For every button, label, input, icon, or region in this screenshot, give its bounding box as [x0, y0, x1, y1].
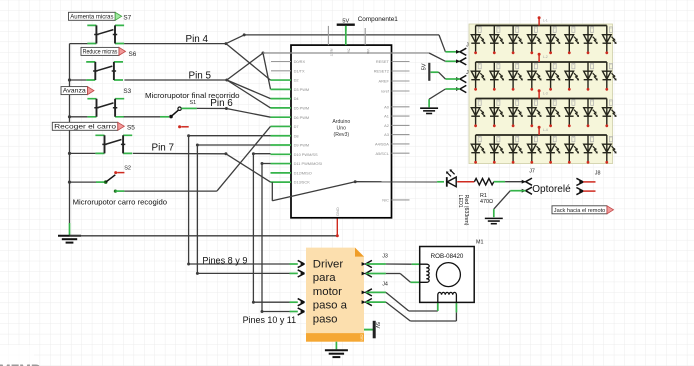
connector J6 pin1 [456, 48, 466, 55]
wire: ground to J5 pin2 [429, 89, 445, 99]
wire: LED row 3 anode bus [476, 98, 607, 100]
svg-text:A1: A1 [384, 114, 389, 119]
wire: ground to J7 pin2 [494, 191, 511, 209]
resistor R1 470 ohm [474, 178, 493, 185]
LED row 3 col 7 [584, 99, 598, 128]
svg-text:RESET2: RESET2 [374, 69, 389, 74]
node: LED row 1 supply stub L-1 [538, 16, 548, 25]
LED row 1 col 5 [546, 26, 560, 55]
ground (below driver note) [325, 342, 348, 357]
node: Pin7 bend [224, 152, 227, 155]
wire: LED row 2 anode bus [476, 61, 607, 63]
node: Pin5 bend [225, 79, 228, 82]
svg-text:N/C: N/C [382, 198, 389, 203]
svg-text:paso a: paso a [313, 300, 348, 312]
svg-text:para: para [313, 272, 336, 284]
wire: Pin6 bend to D6 [226, 109, 270, 118]
connector J4 pin1 [362, 289, 372, 296]
LED row 4 col 2 [490, 135, 504, 164]
driver note bottom band [306, 333, 364, 342]
inductor: motor coil B (bottom, horizontal) [438, 292, 457, 302]
connector J3 pin1 [362, 260, 372, 267]
LED row 2 col 8 [603, 62, 617, 91]
LED row 4 col 8 [603, 135, 617, 164]
wire: D13 net to LED1 (crosses Arduino) [272, 180, 444, 201]
svg-text:D12/MISO: D12/MISO [294, 170, 312, 175]
pushbutton S6 [86, 62, 123, 80]
op-amp U1: Arduino Uno (Rev3) body [291, 45, 392, 218]
ground (below R1/J7) [485, 218, 503, 223]
LED row 4 col 7 [584, 135, 598, 164]
svg-text:D8: D8 [294, 133, 299, 138]
LED row 1 col 3 [509, 26, 523, 55]
LED row 4 col 5 [546, 135, 560, 164]
label: Avanza [61, 87, 94, 95]
wire: Pin 6 net from S1 [181, 107, 197, 109]
text: Driver para motor paso a paso [313, 258, 348, 325]
svg-text:D10 PWM/SS: D10 PWM/SS [294, 152, 318, 157]
wire: left ground bus vertical [69, 44, 71, 223]
svg-text:L-1: L-1 [543, 18, 548, 22]
connector J5 pin1 [456, 75, 466, 82]
LED LED1 Red (633nm) [446, 169, 456, 186]
svg-text:J3: J3 [382, 253, 388, 259]
wire: gray net C over Arduino to J6 pin2 [263, 52, 429, 54]
wire: Pin 4 net horizontal [70, 43, 88, 45]
wire: Pin4 bend to Arduino D2 [226, 44, 271, 81]
svg-text:J8: J8 [595, 170, 601, 176]
svg-text:U$2: U$2 [360, 334, 364, 340]
wire: J4 pin1 to motor coil B left [366, 291, 386, 293]
connector J4 pin2 [362, 299, 372, 306]
svg-text:D11 PWM/MOSI: D11 PWM/MOSI [294, 161, 322, 166]
svg-text:5V: 5V [342, 18, 349, 24]
svg-text:D9 PWM: D9 PWM [294, 143, 310, 148]
LED row 2 col 3 [509, 62, 523, 91]
svg-text:LED1: LED1 [457, 195, 463, 208]
driver note pin 1 [298, 260, 305, 267]
LED matrix panel background [469, 24, 613, 164]
svg-text:S1: S1 [190, 100, 197, 106]
svg-text:A3: A3 [384, 132, 389, 137]
svg-text:D5 PWM: D5 PWM [294, 106, 310, 111]
svg-text:470Ω: 470Ω [480, 199, 493, 205]
power 5V (above Arduino) [337, 18, 355, 31]
wire: LED1 cathode to R1 (red) [457, 181, 474, 183]
svg-text:L-4: L-4 [543, 128, 548, 132]
wire: J3 pin1 to motor coil A top [366, 263, 386, 265]
node: LED row 2 supply stub L-2 [538, 53, 548, 62]
driver note folded corner [355, 248, 364, 257]
connector J6 pin2 [456, 58, 466, 65]
connector J3 pin2 [362, 270, 372, 277]
wire: S3 row horizontal to S1 [70, 116, 88, 118]
LED row 1 col 2 [490, 26, 504, 55]
svg-text:L-2: L-2 [543, 55, 548, 59]
wire: D10 to driver pin3 [252, 152, 298, 304]
LED row 2 col 1 [471, 62, 485, 91]
svg-text:Arduino: Arduino [332, 119, 350, 125]
switch S1 (SPDT microswitch) [169, 107, 189, 128]
LED row 4 col 3 [509, 135, 523, 164]
svg-text:J4: J4 [382, 281, 388, 287]
LED row 1 col 1 [471, 26, 485, 55]
LED row 3 col 1 [471, 99, 485, 128]
LED row 3 col 5 [546, 99, 560, 128]
svg-text:5V: 5V [422, 63, 428, 70]
LED row 4 col 6 [565, 135, 579, 164]
driver note pin 3 [298, 299, 305, 306]
svg-text:S7: S7 [123, 14, 131, 21]
svg-text:A2: A2 [384, 123, 389, 128]
svg-text:Jack hacia el remoto: Jack hacia el remoto [554, 208, 606, 214]
connector J7 pin2 [522, 187, 532, 194]
LED row 3 col 3 [509, 99, 523, 128]
connector J8 pin1 [576, 178, 595, 185]
svg-text:Pin 4: Pin 4 [186, 34, 209, 45]
svg-text:D0/RX: D0/RX [294, 59, 306, 64]
svg-text:AREF: AREF [379, 79, 390, 84]
LED row 2 col 6 [565, 62, 579, 91]
svg-text:5V: 5V [374, 322, 380, 329]
wire: Pin 7 net horizontal [70, 152, 96, 154]
svg-text:(Rev3): (Rev3) [334, 132, 350, 138]
LED row 3 col 4 [528, 99, 542, 128]
wire: D9 to driver pin2 [196, 144, 298, 275]
svg-text:Recoger el carro: Recoger el carro [54, 123, 117, 130]
connector J8 pin2 [576, 188, 595, 195]
LED row 2 col 2 [490, 62, 504, 91]
svg-text:S3: S3 [123, 88, 131, 95]
ground (left, under bus) [58, 236, 81, 243]
LED row 2 col 5 [546, 62, 560, 91]
pushbutton S7 [87, 25, 124, 43]
svg-text:S6: S6 [129, 51, 137, 58]
svg-text:Pin 7: Pin 7 [152, 143, 175, 154]
svg-text:Componente1: Componente1 [358, 16, 399, 23]
LED row 4 col 1 [471, 135, 485, 164]
wire: Pin 5 net horizontal [70, 79, 87, 81]
node: LED row 3 supply stub L-3 [538, 89, 548, 98]
wire: J3 pin2 to motor coil A bottom [366, 273, 386, 275]
wire: Pin4 up to top bus A [226, 35, 244, 44]
pushbutton S3 [87, 99, 124, 117]
svg-text:D4: D4 [294, 96, 300, 101]
svg-text:S2: S2 [124, 165, 131, 171]
svg-text:motor: motor [313, 286, 342, 298]
driver note pin 4 [298, 308, 305, 315]
LED row 1 col 7 [584, 26, 598, 55]
svg-text:L-3: L-3 [543, 91, 548, 95]
wire: ground rail to Arduino GND [70, 235, 338, 237]
switch S2 (SPDT microswitch) [70, 171, 125, 193]
svg-text:A5/SCL: A5/SCL [375, 151, 389, 156]
node: LED row 4 supply stub L-4 [538, 126, 548, 135]
svg-text:Pin 6: Pin 6 [210, 98, 233, 109]
svg-text:Microrupotor carro recogido: Microrupotor carro recogido [73, 197, 168, 206]
svg-text:M1: M1 [476, 240, 484, 246]
LED row 3 col 2 [490, 99, 504, 128]
svg-text:Avanza: Avanza [63, 88, 87, 95]
svg-text:Reduce micras: Reduce micras [83, 49, 118, 56]
LED row 1 col 4 [528, 26, 542, 55]
ground (right of Arduino) [420, 108, 438, 113]
pushbutton S5 [95, 135, 132, 153]
power 5V (driver) [364, 321, 380, 339]
svg-text:Pines 8 y 9: Pines 8 y 9 [202, 255, 247, 266]
motor M1 rotor circle [436, 263, 460, 287]
svg-text:Aumenta micras: Aumenta micras [70, 13, 113, 20]
LED row 3 col 6 [565, 99, 579, 128]
svg-text:A0: A0 [384, 104, 390, 109]
LED row 4 col 4 [528, 135, 542, 164]
Arduino right pins [374, 59, 410, 202]
svg-text:D6 PWM: D6 PWM [294, 115, 310, 120]
wire: D11 to driver pin4 [261, 162, 298, 313]
wire: LED row 4 anode bus [476, 134, 607, 136]
svg-text:Uno: Uno [337, 126, 347, 132]
wire: 5V to J5 pin1 [439, 72, 446, 79]
svg-text:Pin 5: Pin 5 [189, 70, 212, 81]
driver note pin 2 [298, 270, 305, 277]
wire: C to D3 [263, 53, 271, 89]
svg-text:RESET: RESET [376, 59, 390, 64]
Arduino top pins RESET/5V/Vin [328, 26, 370, 57]
label: Aumenta micras [69, 12, 122, 20]
driver note body [306, 248, 364, 334]
svg-text:D3 PWM: D3 PWM [294, 87, 310, 92]
wire: R1 to J7 pin1 [494, 181, 505, 183]
svg-text:J7: J7 [529, 169, 535, 175]
wire: Pin5 bend to D4 and D5 [227, 80, 271, 99]
svg-text:ioref: ioref [381, 89, 389, 94]
label: Reduce micras [81, 47, 126, 55]
wire: D8 to driver pin1 [187, 134, 298, 265]
svg-text:GND: GND [335, 207, 340, 216]
LED row 1 col 6 [565, 26, 579, 55]
svg-text:D7: D7 [294, 124, 299, 129]
motor M1 ROB-08420 body [420, 247, 475, 303]
LED row 2 col 4 [528, 62, 542, 91]
svg-text:S5: S5 [127, 124, 135, 131]
wire: J4 pin2 to motor coil B right [366, 301, 386, 303]
svg-text:D13/SCK: D13/SCK [294, 180, 311, 185]
node: bus junction dots [68, 78, 71, 183]
svg-text:paso: paso [313, 314, 338, 326]
decorative watermark bottom-left [0, 345, 34, 366]
connector J7 pin1 [522, 178, 532, 185]
wire: LED row 1 anode bus [476, 25, 607, 27]
LED row 2 col 7 [584, 62, 598, 91]
svg-text:Red (633nm): Red (633nm) [463, 195, 469, 226]
power 5V (right, feeds J5) [422, 63, 439, 81]
wire: Pin7 bend to D13 [226, 154, 271, 182]
connector J5 pin2 [456, 85, 466, 92]
svg-text:D1/TX: D1/TX [294, 68, 305, 73]
wire: S2 lower throw to D7 [124, 190, 216, 192]
LED row 3 col 8 [603, 99, 617, 128]
svg-text:A4/SDA: A4/SDA [375, 142, 389, 147]
label: Recoger el carro [52, 122, 124, 130]
node: Pin6 bend [225, 107, 228, 110]
svg-text:Driver: Driver [313, 258, 344, 270]
node: Pin4 bend [225, 42, 228, 45]
svg-text:D2: D2 [294, 78, 299, 83]
inductor: motor coil A (left, vertical) [419, 264, 429, 282]
svg-text:ROB-08420: ROB-08420 [431, 253, 464, 260]
svg-text:Pines 10 y 11: Pines 10 y 11 [243, 315, 297, 326]
wire: Arduino GND red lead [336, 218, 338, 236]
Arduino left pins D0-D13 [271, 59, 323, 185]
svg-text:MFMP: MFMP [0, 361, 40, 366]
wire: top horizontal to J6 pin1 [244, 34, 439, 36]
label: Jack hacia el remoto [552, 206, 614, 214]
svg-text:Optorelé: Optorelé [532, 184, 571, 195]
LED row 1 col 8 [603, 26, 617, 55]
wire: Pin5 up to gray bus C [227, 53, 263, 80]
